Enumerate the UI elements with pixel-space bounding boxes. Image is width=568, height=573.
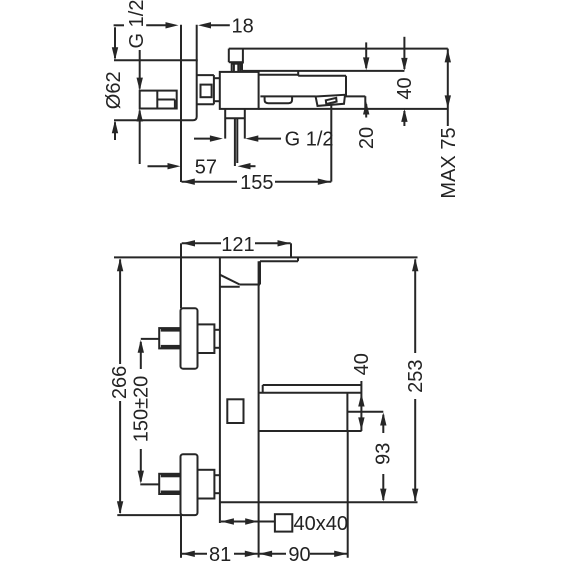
spout underside slot	[265, 96, 293, 103]
upper wall union flange	[181, 308, 198, 368]
dimension G 1/2 (wall supply)	[126, 0, 148, 164]
svg-text:G 1/2: G 1/2	[126, 0, 148, 48]
svg-text:G 1/2: G 1/2	[285, 128, 334, 150]
outlet axis extension	[330, 105, 332, 182]
lower union stub	[140, 483, 159, 485]
dimension 93	[373, 413, 395, 502]
dimension 40 (spout drop)	[394, 37, 416, 126]
svg-text:90: 90	[288, 544, 310, 566]
dimension 150&#177;20	[130, 340, 152, 484]
lever knob (top view)	[229, 49, 243, 72]
svg-text:253: 253	[405, 360, 427, 393]
top reference line (elevation)	[114, 256, 418, 258]
svg-text:81: 81	[209, 544, 231, 566]
svg-text:57: 57	[195, 156, 217, 178]
angled outlet nozzle	[316, 95, 345, 106]
dimension 253	[405, 258, 427, 501]
hand shower outlet stub	[225, 109, 245, 166]
body front detail window	[227, 399, 243, 423]
svg-text:40: 40	[351, 353, 373, 375]
svg-text:20: 20	[356, 127, 378, 149]
dimension G 1/2 (shower outlet)	[194, 128, 334, 150]
dimension 90	[259, 431, 348, 566]
dimension MAX 75	[438, 49, 460, 199]
svg-text:40x40: 40x40	[294, 513, 349, 535]
svg-text:Ø62: Ø62	[103, 71, 125, 109]
dimension 121	[181, 234, 291, 308]
wall line (top view)	[180, 25, 182, 182]
escutcheon-to-body connector (top view)	[197, 75, 220, 104]
upper union stub	[141, 338, 159, 340]
lever handle (elevation)	[220, 257, 298, 284]
dimension 57	[148, 156, 256, 178]
dimension 81	[181, 515, 258, 566]
mixer body (top view)	[220, 72, 259, 109]
svg-text:93: 93	[373, 443, 395, 465]
upper union nut	[159, 328, 180, 348]
spout (elevation)	[259, 385, 384, 431]
dimension 18	[114, 16, 254, 38]
upper union connector	[198, 324, 220, 353]
lower union connector	[198, 470, 220, 499]
svg-text:18: 18	[232, 16, 254, 38]
dimension 40 (spout height)	[351, 353, 373, 431]
lower union nut	[159, 474, 180, 494]
dimension Ø62	[103, 27, 125, 140]
lower wall union flange	[181, 454, 198, 515]
svg-text:155: 155	[240, 172, 273, 194]
spout (top view)	[259, 71, 448, 109]
escutcheon plate Ø62 (top view)	[114, 25, 198, 121]
dimension 20	[356, 42, 378, 149]
in-wall supply pipe	[140, 91, 177, 109]
svg-text:MAX 75: MAX 75	[438, 127, 460, 198]
callout &#9633;40x40	[221, 513, 348, 535]
dimension 266	[109, 258, 181, 515]
dimension 155	[182, 172, 332, 194]
mixer body column (elevation)	[220, 257, 259, 557]
svg-text:40: 40	[394, 77, 416, 99]
lever handle bar (top view)	[229, 49, 448, 71]
bottom reference line (elevation)	[220, 501, 418, 503]
svg-text:121: 121	[221, 234, 254, 256]
svg-text:266: 266	[109, 366, 131, 399]
svg-text:150±20: 150±20	[130, 376, 152, 443]
